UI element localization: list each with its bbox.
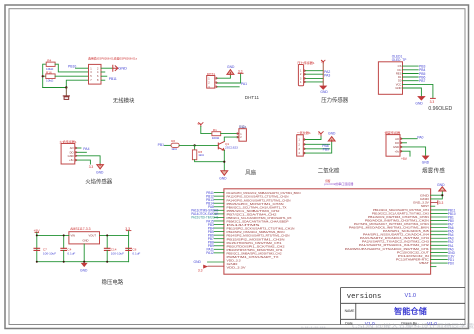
svg-text:DHT1: DHT1 [207,72,215,76]
svg-text:VBAT: VBAT [419,262,430,265]
capacitor C7 [34,248,40,250]
wire MCU right pin row 10 [431,227,448,229]
svg-text:5V: 5V [318,131,322,135]
wire pin3 [305,148,329,150]
svg-text:选用值:ESP8266-01还是ESP8266-01s: 选用值:ESP8266-01还是ESP8266-01s [88,55,137,60]
svg-text:PB7: PB7 [419,79,426,83]
svg-text:PA15/JTDI-TIM2CH1: PA15/JTDI-TIM2CH1 [191,216,218,220]
svg-text:PB0/ADC8_IN8/TIM3_CH3/TIM1_CH2: PB0/ADC8_IN8/TIM3_CH3/TIM1_CH2N [365,219,429,222]
wire MCU left pin row 1 [214,192,224,194]
svg-text:DO: DO [395,141,399,145]
node junction ground [65,86,67,88]
svg-text:R4: R4 [47,59,51,63]
svg-text:GND: GND [328,132,336,136]
svg-text:GND: GND [420,198,429,201]
svg-text:R16: R16 [46,71,52,75]
power port GND (bar+arrow) [113,65,118,71]
wire AO [402,138,417,140]
svg-text:versions: versions [347,293,382,301]
wire fan pin2 to collector [224,137,237,142]
resistor R1 [212,132,221,136]
wire MCU right pin row 19 [431,259,448,261]
svg-text:PD0: PD0 [448,261,454,265]
svg-text:+5v: +5v [69,158,74,162]
wire +5v to 3.3 [77,160,90,164]
svg-text:二氧化碳1: 二氧化碳1 [297,130,311,135]
svg-text:PB14/SPI2_MISO/USART3_RTS/TIM1: PB14/SPI2_MISO/USART3_RTS/TIM1_CH2N [227,235,290,238]
svg-text:0.96OLED: 0.96OLED [428,106,452,112]
svg-text:AO: AO [70,146,74,150]
resistor R4 [46,62,55,66]
power port GND down-arrow flame [97,164,104,169]
wire MCU VDD pin [208,261,224,263]
power port GND up-arrow CO2 [328,137,335,142]
svg-text:PA3/USART2_RX/ADC3_IN3/TIM2_CH: PA3/USART2_RX/ADC3_IN3/TIM2_CH4 [360,237,430,240]
svg-text:PB10/I2C2_SCL/USART3_TX/TIM2_C: PB10/I2C2_SCL/USART3_TX/TIM2_CH3 [372,212,430,215]
resistor R2 [171,143,179,147]
power port GND down-arrow fan [221,171,228,176]
pin arrows fan [237,133,239,138]
MCU U4 STM32 [224,189,431,274]
wire MCU right pin row 11 [431,230,448,232]
watermark [301,322,474,331]
regulator U3 AMS1117-3.3 [69,232,100,244]
svg-text:PWM/TIM4_CH3/USART_TX: PWM/TIM4_CH3/USART_TX [227,256,280,259]
wire MCU left pin row 5 [214,206,224,208]
svg-text:•·••·•·••·•••: •·••·•·••·••• [301,325,326,331]
wire pin1 to GND arrow [217,75,230,79]
svg-text:PB15/GPIO_MOSI/TIM1_CH3N: PB15/GPIO_MOSI/TIM1_CH3N [227,203,284,206]
wire R16 left lead [43,75,46,77]
wire AO stub [77,147,81,149]
wire R3 top lead [194,145,196,150]
wire bottom rail [37,261,129,263]
wire D1 [403,76,419,78]
connector smoke [386,135,400,157]
svg-text:3.3: 3.3 [89,165,94,169]
power port 5V CO2 [319,132,323,136]
wire pin3 [306,77,323,79]
wire MCU left pin row 7 [214,213,224,215]
svg-text:GND: GND [219,177,227,181]
power port GND triangle [320,86,327,90]
power port 3.3 NRST row [431,202,437,204]
pin arrows smoke [400,138,402,152]
title block lines [341,288,465,325]
wire R3 bottom to emitter rail [195,160,225,162]
svg-text:R2: R2 [171,139,175,143]
svg-text:GND: GND [320,90,328,94]
power port GND up-arrow right [439,187,446,191]
capacitor C14 [106,235,108,248]
wire MCU left pin row 16 [214,245,224,247]
wire MCU right pin row 7 [431,216,448,218]
wire pin4 to GND arrow [305,141,331,153]
connector U1 ESP8266 header [89,64,102,84]
node junction left [42,75,44,77]
svg-text:VDD_3.3V: VDD_3.3V [227,267,247,270]
svg-text:PC13/TAMPER-RTC: PC13/TAMPER-RTC [396,258,429,261]
svg-text:3.3: 3.3 [198,269,203,273]
svg-text:AO: AO [395,137,399,141]
wire R1 to fan pin1 [221,133,237,135]
ground symbol wireless [65,88,67,96]
svg-text:稳压电路: 稳压电路 [102,278,124,286]
wire DC [403,69,419,71]
wire MCU left pin row 9 [214,220,224,222]
svg-text:PA15/JTDI/SPI1_NSS/TIM2_CH1: PA15/JTDI/SPI1_NSS/TIM2_CH1 [227,242,283,245]
power arrow bottom-left [203,265,208,269]
wire MCU right pin row 13 [431,237,448,239]
svg-text:智能仓储: 智能仓储 [393,306,428,316]
wire net PB10 to connector pin1 [76,67,89,69]
wire connector pin7 to ground rail [43,80,89,87]
svg-text:GND: GND [68,154,74,158]
pin arrows flame [75,147,77,161]
wire MCU left pin row 8 [214,216,224,218]
pin stubs right of connector [101,71,105,73]
wire MCU right pin row 20 [431,262,448,264]
power port 5V [321,60,325,63]
wire pin2 [305,143,329,145]
wire pin3 stub [217,86,239,88]
pin arrows DHT [215,77,218,88]
svg-text:D1: D1 [398,75,402,79]
svg-text:PB8/I2C1_SCL/CANRX/TIM4_CH3/US: PB8/I2C1_SCL/CANRX/TIM4_CH3/USART1_RX [227,217,292,220]
svg-text:0.1uF: 0.1uF [67,252,75,256]
svg-text:PA0: PA0 [417,136,423,140]
wire 5V vertical rail [322,63,324,86]
svg-text:VOUT: VOUT [89,234,97,238]
wire MCU VSS pin [208,265,224,267]
power port GND triangle smoke [422,156,429,160]
capacitor C4 [63,235,65,248]
svg-text:R1: R1 [213,128,217,132]
capacitor C8 [126,248,132,250]
svg-text:风扇: 风扇 [245,168,256,176]
svg-text:PB1: PB1 [158,143,165,147]
svg-text:PA5/SPI1_SCK/ADC5_IN5: PA5/SPI1_SCK/ADC5_IN5 [383,230,430,233]
wire pin1 [306,70,323,72]
wire DO stub [402,142,406,144]
svg-text:3.3: 3.3 [430,100,435,104]
power port 3.3 [238,72,243,74]
node junctions C7 [36,234,38,236]
svg-text:1kΩ: 1kΩ [171,147,177,151]
svg-text:100-10uF: 100-10uF [111,252,124,256]
wire RES [403,73,419,75]
svg-text:1kΩ: 1kΩ [198,153,204,157]
svg-text:V1.0: V1.0 [405,293,417,299]
wire D0 [403,80,419,82]
connector fan [239,129,247,142]
wire GND pin [403,88,422,96]
wire MCU left pin row 13 [214,234,224,236]
node junction gnd pin [83,261,85,263]
svg-text:PB5/I2C1_SMBA/TIM3_CH2: PB5/I2C1_SMBA/TIM3_CH2 [227,210,281,213]
wire MCU right pin row 16 [431,248,448,250]
wire MCU right pin row 9 [431,223,448,225]
svg-text:GND: GND [96,170,104,174]
node junctions C14 [106,234,108,236]
wire 5V to R1 [201,126,212,133]
svg-text:GND: GND [227,65,235,69]
svg-text:5V: 5V [321,59,325,63]
connector flame [61,144,75,165]
wire CS [403,65,419,67]
pin arrows CO2 [303,139,305,154]
wire right rail down [128,235,130,261]
power port GND up-arrow [227,70,234,75]
power port GND triangle OLED [418,96,425,100]
wire MCU right pin row 8 [431,220,448,222]
node junction GND right [441,194,443,196]
svg-text:DO: DO [70,150,74,154]
wire regulator gnd pin down [83,244,85,262]
svg-text:PB4/JNTRST/SPI1_MISO/TIM3_CH1: PB4/JNTRST/SPI1_MISO/TIM3_CH1 [227,249,284,252]
wire MCU left pin row 12 [214,231,224,233]
pin arrows pressure [304,70,306,83]
svg-text:DHT11: DHT11 [245,95,260,100]
svg-text:CSDN @嵌入式硬件设计师杨同学哦: CSDN @嵌入式硬件设计师杨同学哦 [352,322,474,330]
wire pin4 [306,81,323,83]
wire top rail left [37,233,69,236]
wire MCU right last stub [431,266,436,268]
wire R4 right to connector pin3 [55,64,88,72]
wire MCU left pin row 17 [214,248,224,250]
svg-text:NRST: NRST [421,205,430,208]
svg-text:PB11: PB11 [109,77,117,81]
wire R16 right to connector pin5 [55,75,88,77]
svg-text:VCC: VCC [396,82,402,86]
svg-text:压力传感器: 压力传感器 [321,96,349,104]
svg-text:PB13/SPI2_SCK/USART3_CTS/TIM1_: PB13/SPI2_SCK/USART3_CTS/TIM1_CH1N [227,228,295,231]
connector CO2 [297,135,304,156]
wire MCU left pin row 15 [214,241,224,243]
svg-text:pm:CO2的串口连接器: pm:CO2的串口连接器 [324,181,353,186]
svg-text:烟雾传感: 烟雾传感 [422,166,445,174]
svg-text:PA1: PA1 [241,82,247,86]
wire GND row2 [431,191,443,199]
wire GND row1 [431,194,443,196]
svg-text:DC: DC [398,68,402,72]
wire MCU left pin row 6 [214,209,224,211]
wire MCU right pin row 14 [431,241,448,243]
svg-text:VIN: VIN [71,234,76,238]
svg-text:+5v: +5v [395,149,400,153]
wire PB1 to R2 [165,144,172,146]
svg-text:+5V: +5V [401,157,408,161]
module U2 OLED [378,62,402,95]
svg-text:GND: GND [422,161,430,165]
svg-text:PA4: PA4 [83,147,89,151]
svg-text:RES: RES [396,72,402,76]
wire MCU left pin row 18 [214,252,224,254]
wire MCU right pin row 6 [431,212,448,214]
power port 3.3 OLED [431,97,436,99]
wire MCU left pin row 3 [214,199,224,201]
svg-text:5V: 5V [198,122,202,126]
svg-text:GND: GND [395,86,401,90]
resistor R3 [192,150,196,160]
wire R2 to base [179,144,218,146]
svg-text:D0: D0 [398,79,402,83]
power port 5V fan [199,123,203,127]
wire MCU left pin row 10 [214,224,224,226]
svg-text:100-10uF: 100-10uF [43,252,56,256]
wire GND to triangle [402,147,425,156]
svg-text:无线模块: 无线模块 [113,97,135,105]
svg-text:GND: GND [118,66,127,71]
wire pin2 to 3.3 rail [217,74,240,84]
wire MCU left pin row 2 [214,195,224,197]
svg-text:CS: CS [398,64,402,68]
svg-text:AMS1117-3.3: AMS1117-3.3 [70,227,90,231]
svg-text:10kΩ: 10kΩ [46,79,54,83]
svg-text:GND: GND [393,145,399,149]
wire +5v down [402,151,410,156]
wire MCU right pin row 15 [431,244,448,246]
wire left vertical bus [43,64,47,87]
svg-text:PC15/OSC32_OUT: PC15/OSC32_OUT [397,251,430,254]
wire pin2 [306,73,323,75]
wire left rail down [36,235,38,261]
wire GND to arrow [77,156,100,164]
transistor Q1 [218,142,224,151]
connector pressure [298,65,303,86]
svg-text:PB10: PB10 [68,65,76,69]
wire MCU right pin row 5 [431,209,448,211]
svg-text:PA1/USART2_RTS/ADC1_IN1/TIM2_C: PA1/USART2_RTS/ADC1_IN1/TIM2_CH2 [359,244,430,247]
wire pin2 to GND port [101,67,113,69]
svg-text:火焰传感器: 火焰传感器 [85,177,113,185]
node junctions C4 [63,234,65,236]
svg-text:GND: GND [80,268,88,272]
svg-text:GND: GND [194,260,202,264]
wire MCU right pin row 18 [431,255,448,257]
svg-text:100Ω: 100Ω [212,136,220,140]
wire MCU right pin row 17 [431,251,448,253]
wire MCU left pin row 11 [214,227,224,229]
wire MCU left pin row 4 [214,202,224,204]
svg-text:GND: GND [415,102,423,106]
svg-text:PA12/GPIO_SCK/USART3_CTS/TIM1_: PA12/GPIO_SCK/USART3_CTS/TIM1_CH1N [227,196,289,199]
connector DHT1 [207,76,215,89]
wire stub row4 [431,205,435,207]
svg-text:PA3: PA3 [324,73,330,77]
wire MCU left pin row 14 [214,238,224,240]
wire VCC to 3.3 [403,84,433,98]
svg-text:二氧化碳: 二氧化碳 [318,167,340,175]
wire MCU right pin row 12 [431,234,448,236]
resistor R16 [46,74,55,79]
node junction base/R3 [194,144,196,146]
wire emitter down [223,150,225,170]
svg-text:PB9: PB9 [323,148,330,152]
svg-text:3.3: 3.3 [238,69,243,73]
svg-text:NAME: NAME [345,309,356,313]
svg-text:GND: GND [83,239,89,243]
wire pin1 to 5V [305,136,321,140]
wire DO [77,151,86,153]
svg-text:GND: GND [437,183,445,187]
wire top rail right [100,231,129,235]
svg-text:2SC1623: 2SC1623 [225,146,238,150]
svg-text:PA12: PA12 [206,251,214,255]
node junction emitter [223,161,225,163]
svg-text:0.1uF: 0.1uF [132,252,140,256]
power port GND regulator [81,263,87,266]
svg-text:3.3: 3.3 [439,201,444,205]
